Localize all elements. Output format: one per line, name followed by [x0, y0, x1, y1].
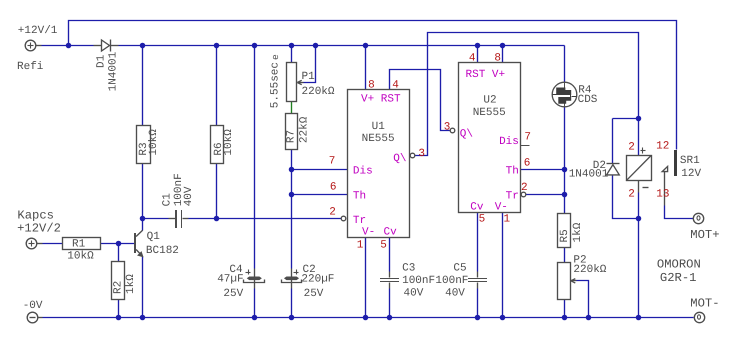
svg-text:5: 5 [479, 214, 486, 226]
svg-text:Tr: Tr [353, 215, 366, 227]
svg-text:3: 3 [418, 148, 425, 160]
svg-text:NE555: NE555 [473, 107, 506, 119]
svg-text:C3: C3 [402, 262, 415, 274]
svg-text:MOT-: MOT- [690, 297, 719, 311]
svg-text:R2: R2 [113, 281, 125, 294]
svg-text:R7: R7 [286, 130, 298, 143]
svg-text:40V: 40V [404, 287, 424, 299]
svg-text:1: 1 [504, 214, 511, 226]
svg-text:10kΩ: 10kΩ [67, 251, 94, 263]
svg-text:R5: R5 [559, 229, 571, 242]
svg-text:C5: C5 [453, 262, 466, 274]
svg-text:2: 2 [628, 141, 635, 153]
svg-text:Dis: Dis [353, 165, 373, 177]
svg-text:7: 7 [524, 132, 531, 144]
svg-text:10kΩ: 10kΩ [148, 129, 160, 156]
svg-text:U2: U2 [483, 95, 496, 107]
svg-text:12: 12 [656, 141, 669, 153]
svg-text:1kΩ: 1kΩ [125, 274, 137, 294]
svg-text:25V: 25V [223, 288, 243, 300]
svg-text:40V: 40V [183, 186, 195, 206]
svg-text:D1: D1 [95, 54, 107, 68]
svg-text:47µF: 47µF [217, 273, 243, 285]
svg-text:5.55sec: 5.55sec [269, 62, 281, 108]
svg-text:1: 1 [357, 240, 364, 252]
svg-text:40V: 40V [445, 287, 465, 299]
svg-text:Tr: Tr [506, 191, 519, 203]
svg-text:6: 6 [330, 181, 337, 193]
svg-text:8: 8 [494, 52, 501, 64]
svg-text:MOT+: MOT+ [690, 228, 719, 242]
svg-text:10kΩ: 10kΩ [223, 129, 235, 156]
svg-text:V+ RST: V+ RST [361, 93, 401, 105]
svg-text:-0V: -0V [23, 300, 43, 312]
svg-text:8: 8 [368, 79, 375, 91]
svg-text:2: 2 [628, 189, 635, 201]
svg-text:P1: P1 [302, 71, 316, 83]
svg-text:22kΩ: 22kΩ [298, 116, 310, 143]
svg-text:Kapcs: Kapcs [17, 208, 54, 222]
svg-text:Cv: Cv [384, 226, 398, 238]
svg-text:e: e [270, 54, 281, 60]
svg-text:OMORON: OMORON [657, 258, 701, 272]
svg-text:RST V+: RST V+ [466, 69, 506, 81]
svg-text:1N4001: 1N4001 [569, 168, 609, 180]
svg-text:Q1: Q1 [147, 231, 161, 243]
svg-text:Q\: Q\ [393, 153, 406, 165]
svg-text:100nF: 100nF [435, 275, 468, 287]
svg-text:Q\: Q\ [460, 129, 473, 141]
svg-text:4: 4 [392, 79, 399, 91]
svg-text:+12V/2: +12V/2 [17, 221, 61, 235]
svg-text:Dis: Dis [499, 136, 519, 148]
svg-text:BC182: BC182 [146, 245, 179, 257]
svg-text:+12V/1: +12V/1 [18, 25, 58, 37]
svg-text:7: 7 [329, 156, 336, 168]
svg-text:Th: Th [506, 165, 519, 177]
svg-text:Th: Th [353, 190, 366, 202]
svg-text:220µF: 220µF [301, 273, 334, 285]
svg-text:1N4001: 1N4001 [108, 51, 120, 91]
svg-text:CDS: CDS [578, 94, 598, 106]
svg-text:R1: R1 [72, 239, 86, 251]
svg-text:NE555: NE555 [362, 133, 395, 145]
svg-text:2: 2 [329, 207, 336, 219]
svg-text:13: 13 [656, 189, 669, 201]
svg-text:25V: 25V [304, 288, 324, 300]
svg-text:6: 6 [524, 158, 531, 170]
svg-text:100nF: 100nF [402, 275, 435, 287]
svg-text:SR1: SR1 [680, 155, 700, 167]
svg-text:12V: 12V [681, 168, 701, 180]
svg-text:Cv: Cv [470, 202, 484, 214]
svg-text:G2R-1: G2R-1 [660, 271, 697, 285]
svg-text:220kΩ: 220kΩ [302, 86, 335, 98]
svg-text:Refi: Refi [17, 61, 44, 73]
svg-text:V-: V- [362, 226, 375, 238]
svg-text:5: 5 [380, 240, 387, 252]
svg-text:1kΩ: 1kΩ [572, 222, 584, 242]
svg-text:V-: V- [495, 202, 508, 214]
svg-text:2: 2 [521, 182, 528, 194]
svg-text:3: 3 [444, 122, 451, 134]
svg-text:220kΩ: 220kΩ [573, 264, 606, 276]
svg-text:U1: U1 [372, 121, 386, 133]
svg-text:4: 4 [469, 52, 476, 64]
